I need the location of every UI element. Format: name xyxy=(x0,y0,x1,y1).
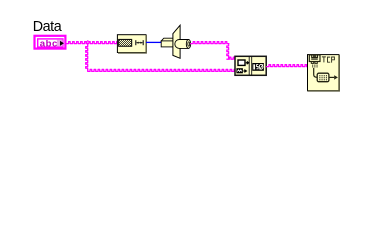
svg-text:Data: Data xyxy=(33,19,62,35)
TCP text xyxy=(322,57,326,63)
wire: branch down from junction (vertical string squiggle) xyxy=(86,44,88,69)
TCP Write function icon xyxy=(308,55,340,91)
wire: short run into Concatenate top input xyxy=(227,57,235,59)
Type Cast function icon (funnel/press) xyxy=(161,25,191,58)
wire: I32 blue wire String Length to Type Cast xyxy=(146,41,162,43)
wire: Data control to String Length (string squiggle) xyxy=(66,42,117,44)
Concatenate/Flatten function icon (two panes) xyxy=(235,56,266,76)
wire: lower long run to Concatenate (string squiggle) xyxy=(88,69,235,71)
hook arrow xyxy=(314,68,318,77)
wire: corner down segment xyxy=(227,44,229,58)
wire: Type Cast output squiggle to corner xyxy=(191,42,229,44)
wire junction on Data wire xyxy=(86,40,90,44)
string control terminal "Data" xyxy=(35,36,66,50)
wire: Concatenate output squiggle to TCP Write xyxy=(267,65,308,67)
String Length function icon xyxy=(117,35,146,53)
svg-text:abc: abc xyxy=(40,39,58,50)
